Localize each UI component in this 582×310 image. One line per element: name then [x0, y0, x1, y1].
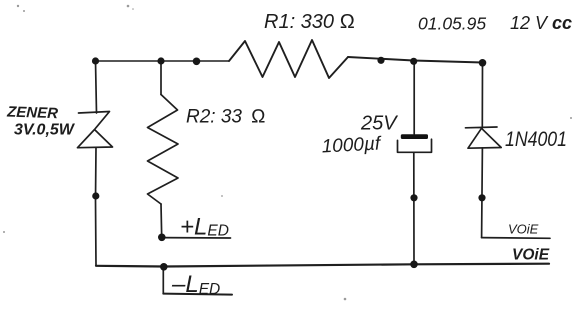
- svg-text:01.05.95: 01.05.95: [418, 14, 486, 34]
- capacitor C1 top plate (polarized, filled bar): [401, 134, 428, 139]
- wire VOIE terminal upper: [482, 237, 550, 240]
- svg-text:12 V cc: 12 V cc: [510, 13, 572, 33]
- wire top rail right: [348, 57, 483, 63]
- node on left branch: [92, 192, 99, 199]
- resistor R1: [229, 40, 348, 78]
- node capacitor tap: [410, 58, 417, 65]
- wire R2 top lead: [160, 61, 162, 95]
- wire diode bottom lead: [481, 148, 484, 238]
- svg-text:1000µf: 1000µf: [321, 133, 382, 157]
- node top-right corner: [479, 59, 487, 67]
- wire +LED terminal: [162, 237, 231, 239]
- svg-text:R2: 33Ω: R2: 33Ω: [186, 107, 266, 128]
- wire capacitor top lead: [413, 61, 415, 134]
- node after R1: [377, 57, 384, 64]
- resistor R2: [148, 95, 179, 205]
- node R2 tap: [157, 57, 164, 64]
- diode D2 1N4001: [466, 127, 502, 148]
- wire left branch upper: [96, 61, 97, 113]
- node capacitor to bottom rail: [410, 261, 418, 269]
- wire R2 bottom lead: [160, 204, 163, 237]
- svg-text:25V: 25V: [360, 113, 398, 135]
- zener diode D1: [78, 112, 113, 148]
- svg-text:R1: 330 Ω: R1: 330 Ω: [264, 11, 355, 33]
- node top-left corner: [92, 57, 99, 64]
- svg-text:3V.0,5W: 3V.0,5W: [14, 122, 76, 139]
- svg-text:1N4001: 1N4001: [505, 128, 567, 151]
- svg-text:VOiE: VOiE: [508, 222, 539, 237]
- wire bottom rail: [96, 264, 549, 267]
- capacitor C1 bottom plate: [398, 139, 432, 152]
- wire left branch lower: [95, 148, 98, 266]
- node +LED: [158, 234, 166, 242]
- wire top rail left: [96, 60, 230, 62]
- svg-text:ZENER: ZENER: [6, 103, 59, 122]
- wire capacitor bottom lead: [413, 152, 415, 264]
- node diode wire mid: [478, 194, 485, 201]
- node -LED tap: [160, 263, 168, 271]
- wire -LED drop: [162, 267, 164, 294]
- wire -LED terminal: [163, 294, 232, 295]
- node before R1: [193, 58, 201, 66]
- svg-text:VOiE: VOiE: [512, 247, 550, 264]
- node capacitor wire mid: [410, 194, 417, 201]
- wire diode top lead: [481, 63, 483, 128]
